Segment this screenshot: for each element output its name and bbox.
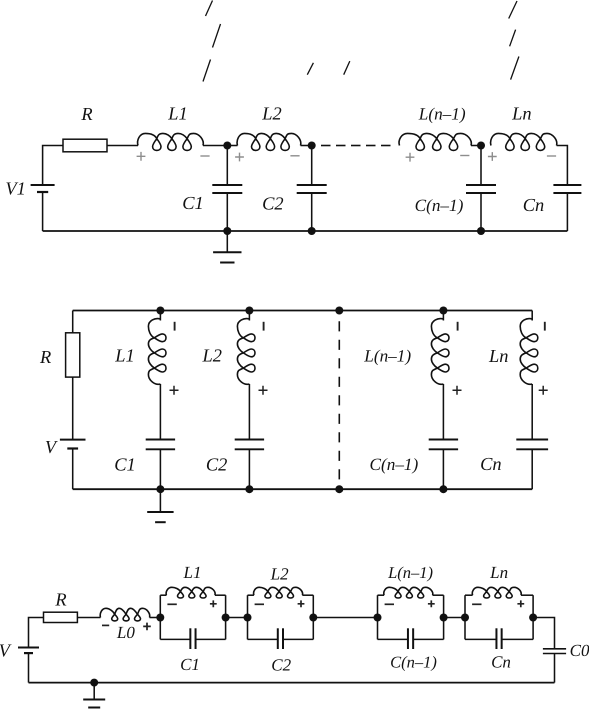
tank 1 left edge wire xyxy=(159,595,161,639)
tank 4 left edge wire xyxy=(464,595,466,639)
tank 2 left edge wire xyxy=(247,595,249,639)
tank 2 right node xyxy=(309,614,317,622)
ground symbol (top circuit) xyxy=(213,251,241,253)
polarity + of branch 3 xyxy=(453,386,462,395)
tank 1 right edge wire xyxy=(225,595,227,639)
svg-text:C(n–1): C(n–1) xyxy=(415,196,464,215)
current tick of Ln branch xyxy=(544,322,546,331)
bottom rail (middle circuit) xyxy=(73,488,533,490)
capacitor C(n-1) (bottom tank 3) xyxy=(407,628,409,649)
bottom rail (top circuit) xyxy=(43,230,568,232)
tank 2 top wire left xyxy=(248,594,254,596)
polarity - of Ln xyxy=(547,155,556,157)
inductor L2 (middle, vertical) xyxy=(248,311,250,321)
wire: V top lead to R (bottom circuit) xyxy=(29,618,44,648)
svg-text:Cn: Cn xyxy=(491,653,511,672)
node B junction xyxy=(308,142,316,150)
tank 4 right edge wire xyxy=(532,595,534,639)
wire top1: V1 top lead and rail to R xyxy=(43,146,63,186)
svg-text:C(n–1): C(n–1) xyxy=(390,653,437,672)
ground stem (bottom) xyxy=(93,683,95,700)
wire: V bottom lead xyxy=(28,653,30,683)
current tick of branch 2 xyxy=(263,322,265,331)
top rail (middle circuit) xyxy=(73,310,533,312)
capacitor Cn (top) xyxy=(553,184,581,186)
svg-text:L(n–1): L(n–1) xyxy=(363,347,411,366)
tank 4 top wire left xyxy=(465,594,473,596)
tank 1 right node xyxy=(222,614,230,622)
bottom node of branch 1 xyxy=(156,485,164,493)
capacitor C2 (top) xyxy=(311,146,313,186)
svg-text:Ln: Ln xyxy=(511,104,531,124)
slash mark 8 xyxy=(511,57,519,80)
polarity + of branch 1 xyxy=(170,386,179,395)
svg-text:Ln: Ln xyxy=(488,346,508,366)
svg-text:C(n–1): C(n–1) xyxy=(370,455,419,474)
svg-text:C2: C2 xyxy=(206,454,227,474)
polarity + of L0 xyxy=(143,623,151,631)
wire coil to cap branch 1 xyxy=(159,384,161,440)
slash mark 2 xyxy=(213,24,221,48)
node A junction xyxy=(223,142,231,150)
wire: Ln to right corner xyxy=(557,146,568,186)
capacitor Cn (bottom tank 4) xyxy=(495,628,497,649)
polarity + of L2 xyxy=(235,153,244,162)
svg-text:C2: C2 xyxy=(262,193,283,213)
svg-text:V: V xyxy=(45,437,58,457)
polarity - of tank 3 xyxy=(385,603,394,605)
capacitor C0 xyxy=(543,648,566,650)
tank 3 right node xyxy=(440,614,448,622)
tank 3 left edge wire xyxy=(377,595,379,639)
polarity - of tank 1 xyxy=(167,603,176,605)
polarity + of Ln branch xyxy=(539,386,548,395)
capacitor C2 (middle) xyxy=(235,439,264,441)
top node of branch 3 xyxy=(439,307,447,315)
tank 1 top wire left xyxy=(160,594,166,596)
inductor L2 (bottom tank 2) xyxy=(254,587,303,598)
svg-text:L2: L2 xyxy=(270,564,289,583)
wire: L0 to tank 1 xyxy=(150,617,161,619)
svg-text:L1: L1 xyxy=(183,563,202,582)
ground symbol (middle) xyxy=(147,511,173,513)
node C junction xyxy=(477,142,485,150)
capacitor C1 (bottom tank 1) xyxy=(189,628,191,649)
tank 4 bottom wire right xyxy=(502,638,533,640)
svg-text:Ln: Ln xyxy=(489,563,508,582)
ground node (bottom) xyxy=(90,679,98,687)
tank 3 bottom wire right xyxy=(413,638,443,640)
wire coil to cap branch 3 xyxy=(442,384,444,440)
svg-text:C1: C1 xyxy=(114,454,135,474)
wire: L1 to node A xyxy=(203,145,227,147)
svg-text:V: V xyxy=(0,641,12,661)
tank 4 bottom wire left xyxy=(465,638,496,640)
tank 2 right edge wire xyxy=(312,595,314,639)
wire: tank3 to tank4 xyxy=(444,617,465,619)
ground stem (top circuit) xyxy=(226,231,228,252)
svg-text:C2: C2 xyxy=(271,655,291,674)
wire stub after node B xyxy=(312,145,315,147)
tank 4 right node xyxy=(529,614,537,622)
voltage source V (middle) xyxy=(60,439,86,441)
tank 2 bottom wire right xyxy=(283,638,313,640)
svg-text:C1: C1 xyxy=(180,655,200,674)
tank 3 left node xyxy=(374,614,382,622)
inductor Ln (middle, vertical right edge) xyxy=(531,311,533,321)
polarity + of tank 2 xyxy=(298,600,305,607)
svg-text:R: R xyxy=(80,104,92,124)
polarity + of L1 xyxy=(137,152,146,161)
slash mark 1 xyxy=(206,1,213,17)
tank 4 top wire right xyxy=(521,594,533,596)
tank 1 top wire right xyxy=(215,594,226,596)
wire: tank4 to C0 corner xyxy=(533,618,554,649)
polarity - of tank 4 xyxy=(472,603,481,605)
polarity - of L2 xyxy=(290,155,299,157)
inductor L1 (bottom tank 1) xyxy=(166,587,215,598)
tank 3 top wire left xyxy=(378,594,385,596)
svg-text:Cn: Cn xyxy=(480,454,501,474)
resistor R (top circuit) xyxy=(63,139,107,152)
svg-text:V1: V1 xyxy=(5,179,25,199)
inductor L(n-1) (bottom tank 3) xyxy=(384,587,433,598)
inductor Ln (bottom tank 4) xyxy=(472,587,521,598)
node F junction (bottom) xyxy=(477,227,485,235)
svg-text:C1: C1 xyxy=(182,193,203,213)
top node of dashed branch xyxy=(335,307,343,315)
capacitor C1 (middle) xyxy=(146,439,175,441)
tank 2 bottom wire left xyxy=(248,638,278,640)
node E junction (bottom) xyxy=(308,227,316,235)
wire: V1 bottom lead xyxy=(42,192,44,231)
svg-text:L2: L2 xyxy=(261,104,281,124)
wire: R to L0 xyxy=(77,617,100,619)
bottom node of branch 2 xyxy=(245,485,253,493)
svg-text:L2: L2 xyxy=(201,346,221,366)
inductor L2 (top) xyxy=(237,133,301,150)
current tick of branch 1 xyxy=(174,322,176,331)
svg-text:R: R xyxy=(39,347,51,367)
current tick of branch 3 xyxy=(457,322,459,331)
wire coil to cap branch 2 xyxy=(248,384,250,440)
slash mark 4 xyxy=(307,63,313,75)
inductor Ln (top) xyxy=(491,133,557,150)
tank 4 left node xyxy=(461,614,469,622)
svg-text:L1: L1 xyxy=(114,346,134,366)
top node of branch 2 xyxy=(245,307,253,315)
voltage source V1 xyxy=(31,184,55,186)
capacitor C(n-1) (middle) xyxy=(429,439,458,441)
tank 3 right edge wire xyxy=(443,595,445,639)
wire: node A to L2 xyxy=(227,145,237,147)
svg-text:R: R xyxy=(54,589,66,609)
capacitor Cn (middle) xyxy=(516,439,548,441)
resistor R (bottom) xyxy=(44,612,78,622)
polarity - of L1 xyxy=(200,155,209,157)
inductor L1 (top) xyxy=(138,133,204,150)
dashed branch (middle) xyxy=(338,321,340,480)
tank 2 left node xyxy=(244,614,252,622)
ground symbol (bottom) xyxy=(83,699,105,701)
polarity + of tank 4 xyxy=(517,600,524,607)
capacitor C(n-1) (top) xyxy=(480,146,482,186)
tank 3 top wire right xyxy=(433,594,444,596)
node D junction (bottom) xyxy=(223,227,231,235)
tank 3 bottom wire left xyxy=(378,638,408,640)
ground stem (middle) xyxy=(159,489,161,512)
polarity - of tank 2 xyxy=(255,603,264,605)
wire: tank1 to tank2 xyxy=(226,617,248,619)
tank 1 bottom wire left xyxy=(160,638,190,640)
inductor L(n-1) (middle, vertical) xyxy=(442,311,444,321)
wire Ln coil to Cn xyxy=(531,384,533,440)
polarity - of L(n-1) xyxy=(460,155,469,157)
bottom rail (bottom circuit) xyxy=(29,682,555,684)
inductor L(n-1) (top) xyxy=(399,133,471,150)
tank 1 left node xyxy=(156,614,164,622)
svg-text:C0: C0 xyxy=(570,641,589,660)
bottom node of dashed branch xyxy=(335,485,343,493)
left branch wires (middle) xyxy=(72,311,74,333)
resistor R (middle, vertical) xyxy=(66,333,80,377)
dashed continuation wire (top) xyxy=(321,145,331,147)
slash mark 5 xyxy=(344,61,350,75)
tank 2 top wire right xyxy=(302,594,313,596)
polarity + of L(n-1) xyxy=(406,153,415,162)
wire: L(n-1) to node C xyxy=(471,145,481,147)
top node of branch 1 xyxy=(156,307,164,315)
bottom node of branch 3 xyxy=(439,485,447,493)
tank 1 bottom wire right xyxy=(196,638,226,640)
wire: C0 down to bottom rail xyxy=(554,654,556,683)
capacitor C2 (bottom tank 2) xyxy=(277,628,279,649)
capacitor C1 (top) xyxy=(226,146,228,186)
svg-text:Cn: Cn xyxy=(523,195,544,215)
inductor L1 (middle, vertical) xyxy=(159,311,161,321)
slash mark 3 xyxy=(203,60,211,82)
wire: tank2 to tank3 xyxy=(313,617,377,619)
wire: L2 to node B xyxy=(301,145,312,147)
polarity - of L0 xyxy=(102,624,109,626)
slash mark 6 xyxy=(509,1,517,19)
svg-text:L(n–1): L(n–1) xyxy=(418,104,466,123)
wire: R to L1 xyxy=(107,145,138,147)
svg-text:L0: L0 xyxy=(116,623,135,642)
slash mark 7 xyxy=(510,30,516,47)
inductor L0 xyxy=(100,608,150,621)
polarity + of tank 1 xyxy=(210,600,217,607)
polarity + of Ln xyxy=(488,152,497,161)
svg-text:L1: L1 xyxy=(167,104,187,124)
voltage source V (bottom) xyxy=(18,647,39,649)
polarity + of branch 2 xyxy=(259,386,268,395)
polarity + of tank 3 xyxy=(428,600,435,607)
svg-text:L(n–1): L(n–1) xyxy=(387,563,433,582)
